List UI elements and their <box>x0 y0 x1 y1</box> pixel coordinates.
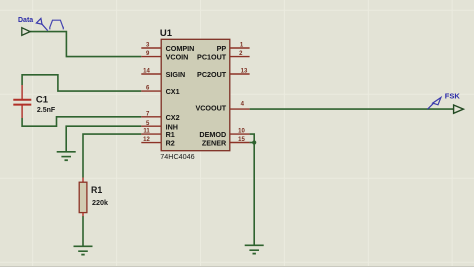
generator marker arrow (Data) <box>36 18 47 30</box>
pin 12 stub <box>141 142 161 144</box>
right pin stubs <box>230 48 250 143</box>
wire: pin 4 VCOOUT to FSK terminal <box>250 108 454 110</box>
svg-text:11: 11 <box>143 129 150 135</box>
svg-text:PC2OUT: PC2OUT <box>197 70 227 79</box>
svg-text:2.5nF: 2.5nF <box>37 107 56 114</box>
pin 10 stub <box>230 133 250 135</box>
wire: C1 bottom to pin 7 CX2 <box>22 117 141 126</box>
svg-text:SIGIN: SIGIN <box>166 70 186 79</box>
svg-text:14: 14 <box>143 69 150 75</box>
pin 7 stub <box>141 116 161 118</box>
svg-text:CX1: CX1 <box>166 87 180 96</box>
junction dot <box>252 140 256 144</box>
wire: resistor bottom to ground <box>82 216 84 246</box>
pulse waveform glyph <box>50 20 64 29</box>
ground (ZENER/DEMOD net) <box>245 245 264 253</box>
pin 4 stub <box>230 108 250 110</box>
pin 2 stub <box>230 56 250 58</box>
pin 11 stub <box>141 133 161 135</box>
voltage probe (FSK) <box>428 98 441 110</box>
svg-text:12: 12 <box>143 137 150 143</box>
pin 6 stub <box>141 90 161 92</box>
svg-text:15: 15 <box>238 137 245 143</box>
ground (INH net) <box>57 152 76 160</box>
pin names left <box>166 44 195 148</box>
left pin stubs <box>141 48 161 143</box>
ground (under R1) <box>74 246 93 254</box>
svg-text:ZENER: ZENER <box>202 139 227 148</box>
wire: pin 15 ZENER to junction <box>250 142 255 144</box>
svg-text:220k: 220k <box>92 198 108 207</box>
pin 14 stub <box>141 73 161 75</box>
output terminal (FSK) <box>454 105 464 113</box>
svg-text:FSK: FSK <box>445 92 461 101</box>
pin names right <box>195 44 227 148</box>
pin 5 stub <box>141 125 161 127</box>
pin 3 stub <box>141 47 161 49</box>
wire: pin 5 INH to ground <box>66 126 141 151</box>
wire: Data terminal to pin 9 VCOIN <box>30 32 141 57</box>
svg-text:74HC4046: 74HC4046 <box>160 152 194 161</box>
svg-text:R2: R2 <box>166 139 175 148</box>
right pin numbers <box>238 43 248 144</box>
input terminal (Data) <box>22 28 30 36</box>
svg-text:VCOOUT: VCOOUT <box>195 104 226 113</box>
pin 15 stub <box>230 142 250 144</box>
wire: pin 10 DEMOD down to ground <box>250 134 255 245</box>
svg-text:Data: Data <box>18 17 33 24</box>
svg-text:13: 13 <box>241 69 248 75</box>
IC U1 74HC4046 body <box>161 39 230 150</box>
svg-text:R1: R1 <box>91 185 102 195</box>
svg-text:CX2: CX2 <box>166 113 180 122</box>
pin 13 stub <box>230 73 250 75</box>
svg-text:10: 10 <box>238 129 245 135</box>
left pin numbers <box>143 43 150 144</box>
svg-text:VCOIN: VCOIN <box>166 53 189 62</box>
svg-text:PC1OUT: PC1OUT <box>197 53 227 62</box>
wire: pin 11 R1 to resistor top <box>83 134 141 177</box>
resistor R1 <box>79 178 108 217</box>
svg-text:U1: U1 <box>160 28 173 39</box>
wire: C1 top to pin 6 CX1 <box>22 75 141 91</box>
capacitor C1 <box>13 85 56 118</box>
pin 9 stub <box>141 56 161 58</box>
pin 1 stub <box>230 47 250 49</box>
svg-text:C1: C1 <box>36 95 49 106</box>
